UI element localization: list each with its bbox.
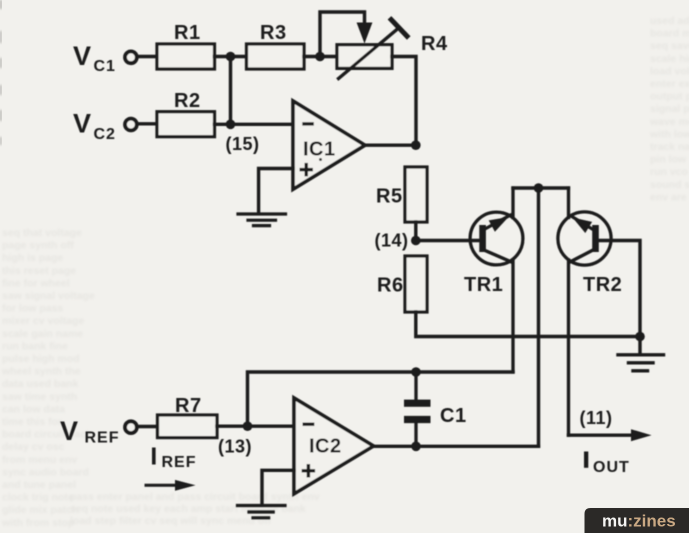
label VC1	[73, 41, 116, 75]
svg-text:with low: with low	[649, 128, 689, 140]
svg-text:saw time synth: saw time synth	[2, 391, 77, 403]
wire R2 to IC1 inverting input	[215, 123, 294, 126]
wire IC1 output	[365, 143, 416, 146]
svg-text:IC2: IC2	[309, 436, 342, 458]
svg-text:C2: C2	[94, 126, 116, 143]
wire VREF to R7	[138, 425, 158, 428]
muzines watermark	[585, 508, 689, 533]
resistor R5	[376, 167, 427, 222]
op-amp IC2	[294, 398, 374, 494]
svg-text:R6: R6	[377, 275, 404, 297]
node (13)	[243, 421, 253, 431]
svg-text:pulse high mod: pulse high mod	[2, 353, 80, 365]
svg-text:R1: R1	[174, 22, 201, 44]
wire wiper loop	[320, 12, 365, 57]
svg-text:page synth off: page synth off	[2, 240, 74, 252]
svg-text:for low pass: for low pass	[2, 303, 63, 315]
input terminal VC1	[125, 51, 137, 63]
svg-text:saw signal voltage: saw signal voltage	[2, 290, 95, 302]
svg-text:this reset page: this reset page	[2, 265, 76, 277]
wire R1 to R3	[215, 55, 247, 58]
svg-text:pass enter panel and pass circ: pass enter panel and pass circuit board …	[70, 491, 320, 503]
svg-text:data used bank: data used bank	[2, 378, 79, 390]
wire R6 to ground rail	[416, 312, 640, 337]
svg-text:(13): (13)	[218, 437, 252, 457]
svg-text:C1: C1	[440, 405, 467, 427]
svg-text:high is page: high is page	[2, 252, 63, 264]
svg-text:REF: REF	[85, 430, 120, 447]
svg-text:wave module: wave module	[649, 116, 689, 128]
svg-text:load step filter cv seq will s: load step filter cv seq will sync menu o…	[70, 515, 272, 527]
svg-text:glide mix patch: glide mix patch	[2, 504, 78, 516]
label VREF	[60, 416, 120, 447]
wire node to node 15	[229, 57, 232, 125]
wire R4 to IC1 output node	[392, 57, 416, 146]
svg-text:(14): (14)	[375, 231, 409, 251]
svg-text:TR2: TR2	[583, 274, 622, 296]
wire R3 to R4	[304, 55, 337, 58]
svg-text:R4: R4	[421, 33, 448, 55]
resistor R7	[158, 395, 218, 438]
svg-text:time this for: time this for	[2, 416, 62, 428]
svg-text:R2: R2	[174, 90, 201, 112]
wire TR2 emitter to top rail	[567, 188, 570, 218]
wire TR2 base to ground rail	[599, 241, 640, 337]
wire TR1 collector down	[511, 260, 514, 372]
junction node R1/R2	[226, 52, 236, 62]
wire R7 to IC2 inverting input	[217, 425, 294, 428]
wire IC2 noninverting input to ground	[262, 470, 294, 504]
svg-text:mu:zines: mu:zines	[602, 512, 676, 531]
svg-text:REF: REF	[162, 454, 197, 471]
output arrow IOUT	[569, 429, 652, 441]
svg-text:R5: R5	[376, 186, 403, 208]
svg-text:from menu env: from menu env	[2, 454, 77, 466]
svg-text:TR1: TR1	[464, 274, 503, 296]
op-amp IC1	[293, 101, 365, 189]
resistor R6	[377, 256, 427, 312]
ground G3	[618, 337, 664, 371]
svg-text:OUT: OUT	[593, 459, 630, 476]
wire feedback node13 to TR1 collector	[248, 372, 514, 426]
capacitor C1	[404, 372, 467, 446]
junction node R3/R4 wiper	[315, 52, 325, 62]
svg-text:wheel synth the: wheel synth the	[1, 366, 81, 378]
svg-text:board module: board module	[650, 28, 689, 40]
resistor R2	[157, 90, 215, 137]
wire rail to IC2 output	[537, 188, 540, 446]
junction ground node	[635, 332, 645, 342]
label IOUT	[584, 452, 630, 477]
transistor TR2	[558, 212, 622, 296]
svg-text:scale high: scale high	[650, 53, 689, 65]
svg-text:can low data: can low data	[2, 403, 65, 415]
wire TR2 collector to output arrow	[567, 260, 570, 435]
wire VC1 to R1	[138, 55, 158, 58]
resistor R3	[247, 22, 305, 69]
ground G1	[238, 214, 286, 226]
svg-text:R3: R3	[260, 22, 287, 44]
svg-text:fine for wheel: fine for wheel	[2, 277, 70, 289]
svg-text:sound step: sound step	[650, 179, 689, 191]
svg-text:mixer cv voltage: mixer cv voltage	[2, 315, 84, 327]
svg-text:and tune panel: and tune panel	[2, 479, 76, 491]
svg-text:pin low: pin low	[650, 154, 687, 166]
svg-text:load volt: load volt	[650, 65, 689, 77]
wire VC2 to R2	[138, 122, 158, 125]
arrow IREF	[146, 480, 196, 491]
svg-text:sync audio board: sync audio board	[2, 466, 89, 478]
svg-text:delay cv osc: delay cv osc	[2, 441, 65, 453]
svg-text:run bank fine: run bank fine	[2, 340, 68, 352]
svg-text:C1: C1	[94, 58, 116, 75]
svg-text:used adsr: used adsr	[650, 15, 689, 27]
svg-text:signal pin: signal pin	[650, 103, 689, 115]
svg-text:scale gain name: scale gain name	[2, 328, 83, 340]
junction top rail node	[534, 183, 544, 193]
node (15)	[226, 120, 236, 130]
wire IC1 noninverting input to ground	[259, 169, 293, 214]
svg-text:seq save: seq save	[650, 40, 689, 52]
junction C1 bottom node	[411, 442, 421, 452]
input terminal VC2	[125, 119, 137, 131]
ground G2	[238, 506, 286, 518]
svg-text:V: V	[60, 416, 78, 446]
svg-text:(15): (15)	[226, 134, 260, 154]
wire IC2 output	[374, 445, 539, 448]
svg-text:with from stop: with from stop	[1, 517, 74, 529]
top rail wire	[513, 186, 569, 189]
svg-text:V: V	[73, 41, 91, 71]
svg-text:output pass: output pass	[650, 91, 689, 103]
wire TR1 emitter to top rail	[511, 188, 514, 218]
svg-text:enter exit: enter exit	[650, 78, 689, 90]
transistor TR1	[464, 212, 523, 296]
svg-text:V: V	[73, 109, 91, 139]
potentiometer R4	[337, 20, 448, 79]
junction IC1 output node	[411, 140, 421, 150]
svg-text:run vco: run vco	[650, 166, 688, 178]
resistor R1	[157, 22, 215, 69]
junction C1 top node	[411, 367, 421, 377]
wire R5 to node 14	[414, 222, 417, 241]
svg-text:env are: env are	[650, 191, 687, 203]
svg-text:IC1: IC1	[303, 139, 336, 161]
input terminal VREF	[125, 421, 137, 433]
svg-text:board circuit each: board circuit each	[2, 429, 92, 441]
svg-text:clock trig note: clock trig note	[2, 492, 74, 504]
label IREF	[152, 448, 197, 472]
node (14)	[411, 236, 421, 246]
svg-text:(11): (11)	[580, 408, 613, 428]
svg-text:track name: track name	[650, 141, 689, 153]
wire node 14 to TR1 base	[416, 239, 480, 242]
svg-text:R7: R7	[175, 395, 202, 417]
svg-text:seq that voltage: seq that voltage	[2, 227, 82, 239]
label VC2	[73, 109, 116, 144]
